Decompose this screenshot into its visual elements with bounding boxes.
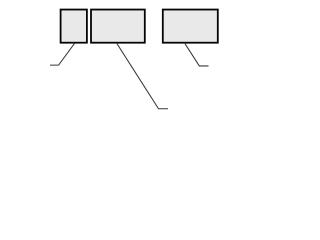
box 3 [163,10,218,43]
leader line 1 [50,43,75,65]
box 2 [91,10,145,43]
box 1 [61,10,87,43]
leader line 3 [185,44,209,66]
leader line 2 [117,44,168,109]
